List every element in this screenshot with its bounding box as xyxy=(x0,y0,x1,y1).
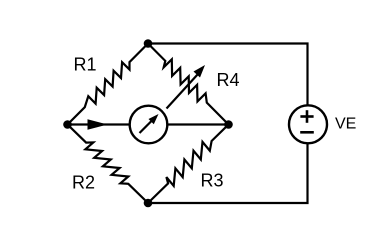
svg-text:R1: R1 xyxy=(74,54,97,74)
svg-text:R3: R3 xyxy=(201,170,224,190)
wire: left node to galvanometer xyxy=(68,123,131,125)
node: left junction xyxy=(63,120,72,129)
node: bottom junction xyxy=(144,199,153,208)
wire: top node to source (top rail) xyxy=(148,44,308,106)
resistor R4 (variable) xyxy=(148,44,229,125)
svg-text:R2: R2 xyxy=(72,173,95,193)
node: right junction xyxy=(224,120,233,129)
current direction arrow xyxy=(88,119,108,130)
resistor R3 xyxy=(148,125,229,204)
plus sign xyxy=(300,110,313,123)
svg-text:VE: VE xyxy=(335,116,356,133)
wire: source bottom to bottom node (bottom rail) xyxy=(148,144,308,203)
galvanometer needle xyxy=(140,114,159,133)
voltage source VE xyxy=(289,105,327,143)
svg-text:R4: R4 xyxy=(217,70,240,90)
wire: galvanometer to right node xyxy=(167,123,229,125)
resistor R2 xyxy=(68,125,149,204)
node: top junction xyxy=(144,39,153,48)
R4 variable-resistor arrow xyxy=(167,65,206,109)
resistor R1 xyxy=(68,44,149,125)
minus sign xyxy=(300,131,314,134)
galvanometer G xyxy=(130,106,168,144)
